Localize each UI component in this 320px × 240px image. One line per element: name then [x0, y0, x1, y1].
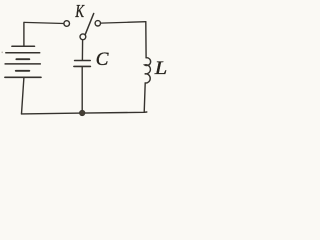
wire bottom — [22, 112, 147, 114]
battery plus mark — [1, 52, 3, 54]
battery plate 4 — [5, 63, 40, 65]
switch K pivot — [80, 34, 86, 40]
svg-text:C: C — [96, 49, 109, 70]
capacitor C top plate — [75, 60, 91, 62]
battery plate 3 — [16, 58, 29, 60]
label L — [154, 58, 168, 79]
switch K blade — [85, 14, 93, 35]
wire top right — [101, 22, 146, 23]
wire right upper — [145, 22, 147, 58]
wire battery top stub — [23, 22, 25, 46]
wire right lower — [144, 83, 145, 112]
wire battery bottom stub — [22, 78, 24, 114]
battery plate 5 — [16, 70, 29, 72]
switch K left contact — [64, 21, 70, 27]
junction dot — [79, 110, 85, 116]
capacitor C bottom plate — [74, 65, 91, 67]
label K — [75, 2, 85, 21]
wire pivot to capacitor — [81, 40, 83, 60]
svg-text:L: L — [154, 58, 168, 79]
wire top left — [24, 22, 64, 23]
battery plate 6 — [5, 76, 41, 78]
svg-text:K: K — [75, 2, 85, 21]
inductor L — [145, 58, 151, 83]
wire capacitor to bottom — [81, 67, 83, 111]
battery plate 1 — [12, 45, 35, 47]
switch K right contact — [95, 21, 100, 26]
battery plate 2 — [6, 52, 40, 54]
